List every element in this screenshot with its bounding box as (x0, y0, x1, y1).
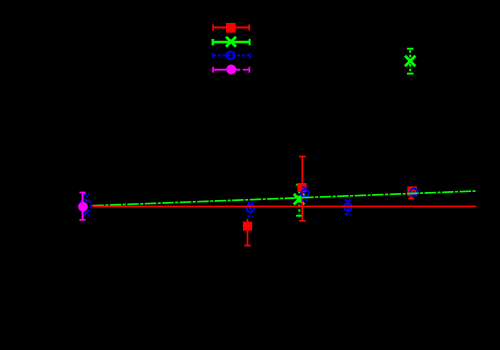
green errorbar X (299,199.2) (294, 185, 304, 216)
red errorbar point 3: square (412,191.3) (408, 186, 414, 198)
red errorbar point 2: square (301.9,187.5) (299, 157, 306, 221)
legend entry 4: magenta errorbar sample (213, 67, 249, 73)
blue errorbar point 2: circle (250.3,208.1) (247, 203, 255, 217)
blue errorbar point 4: circle (347.8,206.9) (344, 200, 352, 214)
magenta errorbar point: filled circle (82.9,206.7) (79, 193, 85, 220)
legend entry 1: red errorbar sample (213, 24, 249, 30)
legend entry 2: green errorbar sample (213, 37, 250, 47)
blue errorbar point 5: circle (413.6,192.1) (410, 189, 417, 196)
legend entry 3: blue dashed errorbar sample (213, 52, 250, 60)
green outlier errorbar X (410,61) (405, 49, 415, 74)
green fit line (dash-dot, sloped) (92, 191, 476, 206)
blue errorbar point 1: dashed circle (85.3,205.8) (79, 194, 91, 214)
blue errorbar point 3: circle (305,193.3) (301, 187, 309, 200)
red fit line (horizontal) (91, 205, 477, 207)
red errorbar point 1: square (247.5,226) (244, 219, 251, 246)
